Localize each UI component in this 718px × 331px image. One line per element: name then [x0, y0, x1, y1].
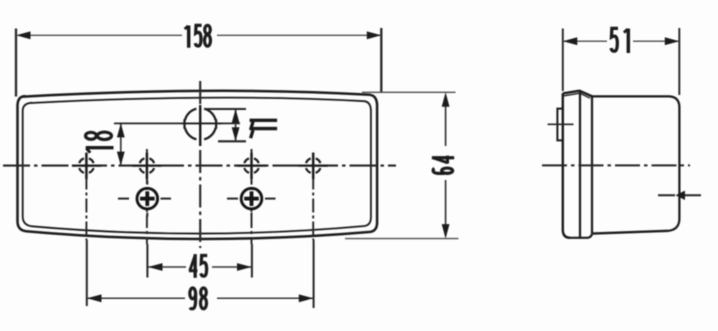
hole centerline V4 [312, 153, 314, 241]
screw head B2 (large) [227, 180, 276, 216]
dimension 158: dimension line [30, 34, 182, 36]
hole centerline V1 [85, 153, 87, 241]
side view lens front edge [563, 93, 570, 238]
dimension 51: extension lines [562, 29, 564, 92]
dimension 64: dimension line [445, 97, 447, 146]
side view housing seam [591, 96, 593, 233]
dimension 18: dimension line with arrows [120, 123, 122, 165]
dimension 64: label (rotated) [432, 156, 454, 174]
bulb circle (dashed) [185, 109, 216, 140]
side view mounting tab [557, 109, 563, 141]
side view lens bottom [570, 234, 592, 238]
dimension 158: arrowheads [16, 31, 31, 39]
side view lens back seam [579, 91, 581, 237]
dimension 51: dimension line [563, 40, 607, 42]
horizontal centerline of front view [3, 165, 396, 167]
dimension 64: arrowheads [442, 92, 450, 107]
front view outer housing outline [18, 91, 378, 239]
dimension 11: reference lines [204, 108, 246, 110]
side view housing bottom [592, 231, 668, 234]
dimension 11: dimension line with arrows [235, 109, 237, 141]
dimension 45: label [189, 254, 207, 278]
front view inner lens outline [23, 98, 371, 234]
hole centerline V3 [251, 149, 253, 244]
screw hole S2 (small, dashed) [140, 158, 154, 172]
dimension 98: dimension line [87, 297, 185, 299]
dimension 158: label [185, 25, 211, 47]
side view lens top edge [563, 91, 592, 97]
dimension 51: label [611, 28, 628, 53]
hole centerline V2 [146, 149, 148, 244]
screw head B1 (large) [118, 180, 171, 216]
dimension 98: label [190, 288, 207, 309]
dimension 11: label (rotated) [250, 120, 278, 138]
screw hole S4 (small, dashed) [306, 158, 320, 172]
bulb horizontal centerline / 18 top reference [114, 122, 240, 124]
side view lens top inner line [564, 93, 590, 98]
side view housing top and right edge [592, 96, 679, 230]
dimension 18: label (rotated) [86, 132, 114, 153]
direction arrow at rear face [658, 194, 703, 196]
dimension 64: extension lines [362, 91, 456, 93]
hole crosshairs [85, 153, 88, 179]
screw hole S3 (small, dashed) [244, 158, 258, 172]
screw hole S1 (small, dashed) [79, 158, 93, 172]
side view tab centerline [548, 123, 574, 125]
dimension 158: extension lines [15, 29, 17, 97]
vertical centerline of front view [199, 81, 201, 248]
side view horizontal centerline [542, 164, 690, 166]
dimension 45: dimension line [148, 266, 186, 268]
